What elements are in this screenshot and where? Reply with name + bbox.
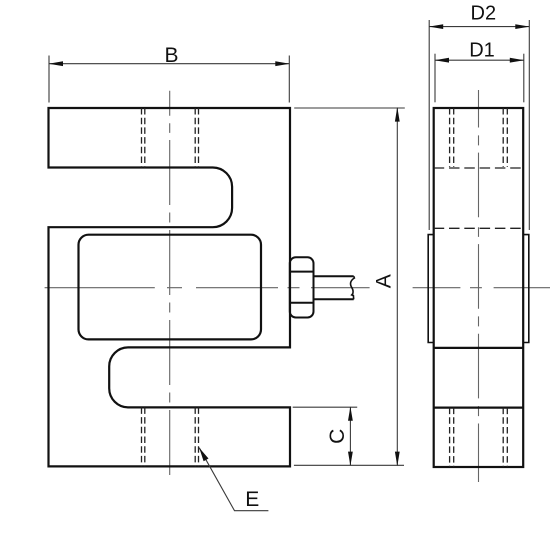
- svg-text:A: A: [373, 274, 396, 288]
- side view division line upper (lower slot top): [434, 347, 524, 349]
- front view centerline horizontal: [45, 287, 370, 289]
- svg-text:E: E: [245, 488, 259, 511]
- svg-text:B: B: [164, 44, 178, 67]
- dimension B extension lines: [49, 56, 289, 103]
- bottom threaded hole hidden lines: [142, 407, 199, 466]
- svg-text:D1: D1: [469, 39, 495, 61]
- dimension D1 extension lines: [435, 54, 524, 103]
- side view bottom threaded hole hidden lines: [450, 408, 508, 467]
- dimension B line: [49, 63, 289, 65]
- side view wider band right: [523, 235, 529, 343]
- side view top threaded hole hidden lines: [450, 108, 508, 167]
- svg-text:C: C: [326, 429, 349, 444]
- side view division line lower (lower slot bottom): [434, 407, 524, 409]
- front view central aperture rounded rect: [79, 235, 262, 340]
- side view hidden line upper slot top: [434, 167, 524, 169]
- svg-text:D2: D2: [471, 2, 497, 24]
- dimension D1 line: [435, 59, 524, 61]
- dimension A arrows: [395, 107, 400, 466]
- cable gland hex nut: [290, 257, 314, 317]
- front view S-shaped body outline: [49, 108, 291, 466]
- front view centerline vertical: [169, 91, 171, 482]
- dimension B arrows: [49, 61, 290, 66]
- side view centerline horizontal: [413, 287, 550, 289]
- side view hidden line upper slot bottom: [434, 227, 524, 229]
- leader E line: [199, 448, 268, 511]
- dimension C extension line: [293, 406, 358, 408]
- dimension D2 line: [429, 26, 529, 28]
- dimension D2 arrows: [429, 24, 530, 29]
- side view wider band left: [428, 235, 434, 343]
- dimension C line: [349, 407, 351, 465]
- side view centerline vertical: [478, 90, 480, 482]
- dimension A line: [396, 108, 398, 465]
- dimension D1 arrows: [435, 58, 525, 63]
- cable: [314, 276, 355, 299]
- side view main body rectangle: [434, 108, 524, 467]
- leader E arrow: [199, 448, 208, 462]
- dimension C arrows: [348, 407, 353, 466]
- dimension A extension lines: [294, 108, 405, 465]
- dimension D2 extension lines: [429, 20, 529, 230]
- top threaded hole hidden lines: [142, 108, 199, 168]
